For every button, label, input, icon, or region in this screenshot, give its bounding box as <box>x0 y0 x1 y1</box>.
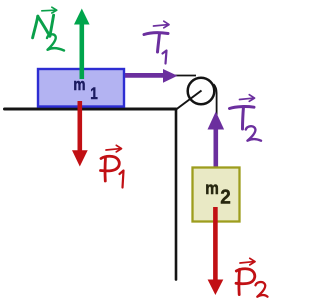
weight vector P1 (red, down) <box>72 101 88 167</box>
pulley support arm <box>176 91 202 110</box>
label P2 with overhead arrow (red handwritten) <box>236 258 268 296</box>
table edge (vertical) <box>175 109 178 280</box>
label m2 <box>205 178 231 209</box>
label N2 with overhead arrow (green handwritten) <box>33 7 64 50</box>
label T1 with overhead arrow (purple handwritten) <box>144 21 169 63</box>
pulley wheel <box>188 78 215 105</box>
table surface (horizontal) <box>5 108 177 111</box>
weight vector P2 (red, down) <box>208 207 224 295</box>
tension vector T1 (purple, right) <box>125 69 178 83</box>
rope horizontal segment <box>160 75 196 77</box>
label T2 with overhead arrow (purple handwritten) <box>230 95 262 141</box>
mass m2 box <box>193 168 240 222</box>
mass m1 box <box>38 69 124 107</box>
label P1 with overhead arrow (red handwritten) <box>101 145 124 187</box>
label m1 <box>73 76 98 104</box>
svg-text:2: 2 <box>220 186 231 209</box>
svg-text:m: m <box>205 178 219 198</box>
svg-text:1: 1 <box>90 85 98 104</box>
tension vector T2 (purple, up) <box>208 112 225 169</box>
normal force vector N (green, up) <box>74 9 90 80</box>
rope vertical segment to m2 <box>214 84 217 168</box>
